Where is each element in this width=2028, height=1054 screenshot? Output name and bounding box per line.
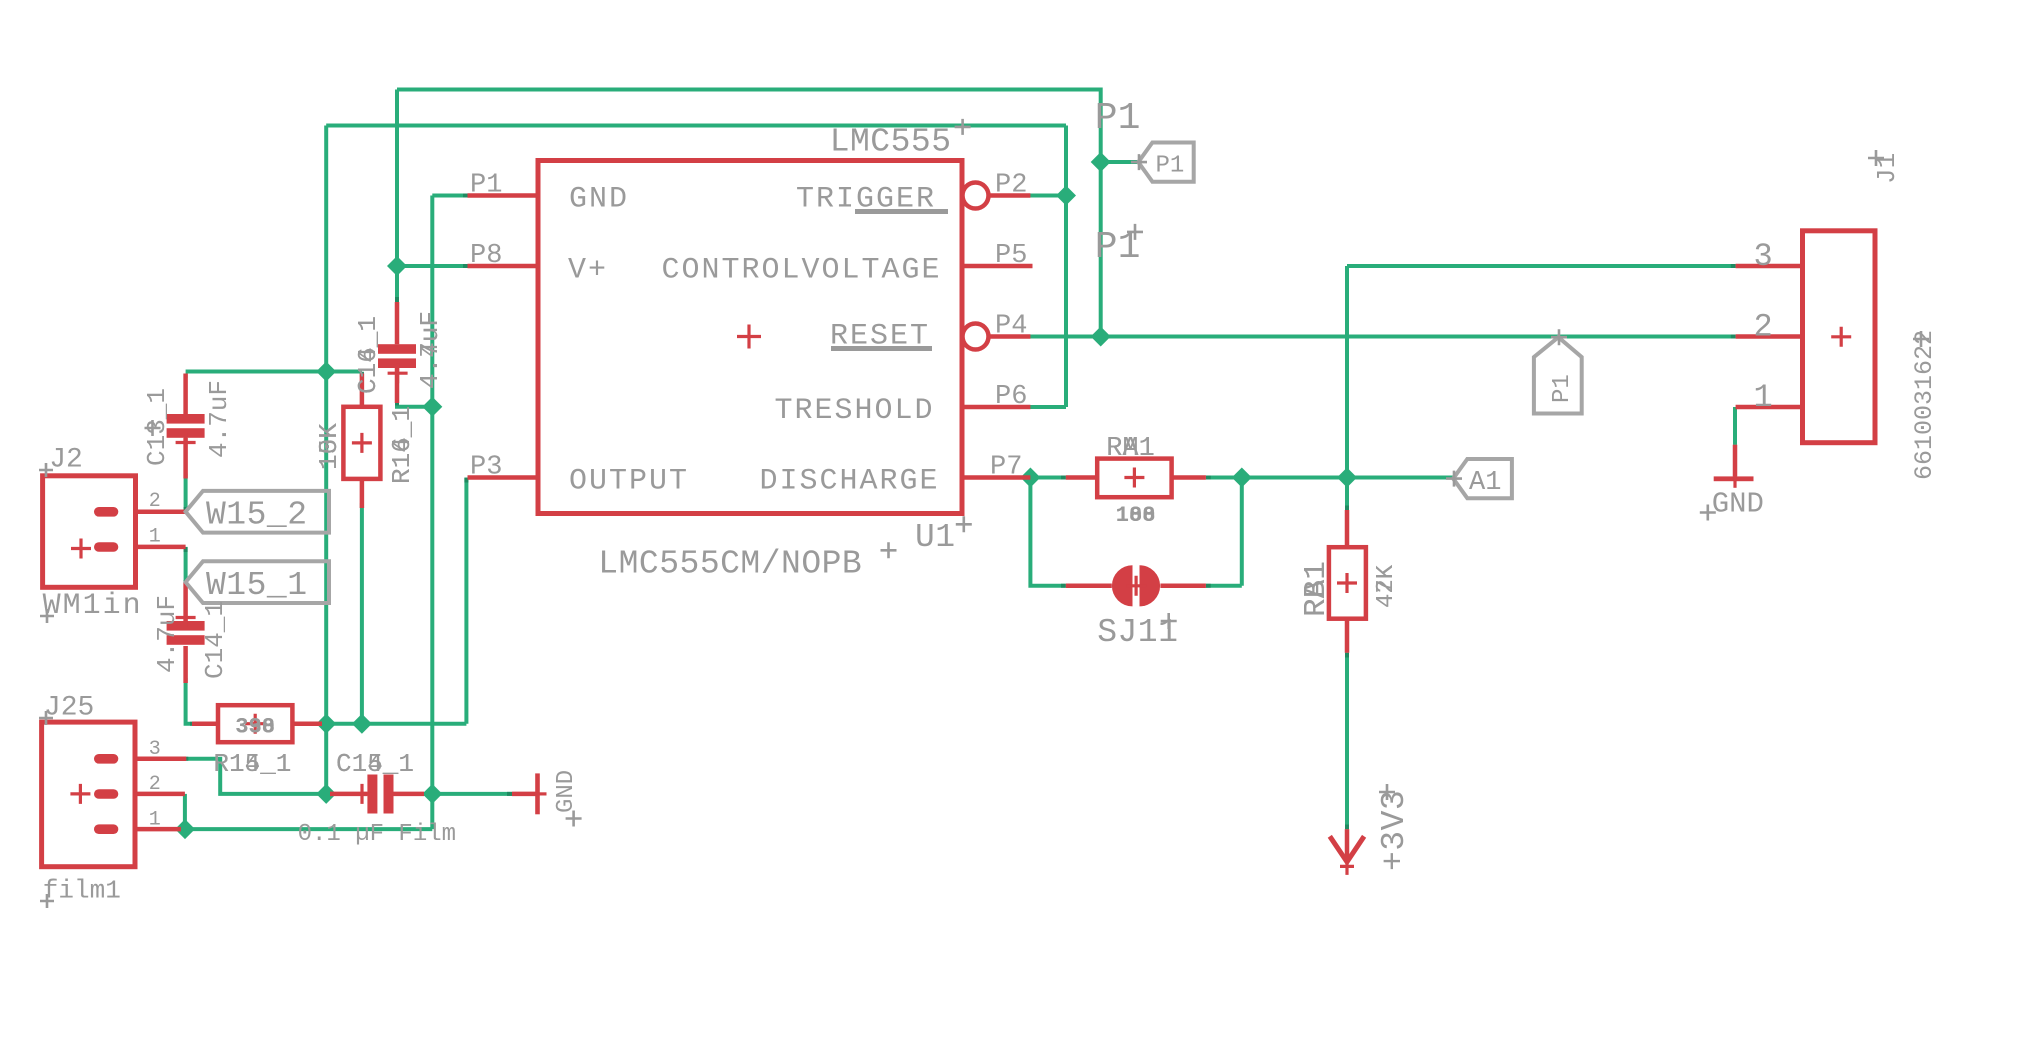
svg-text:P1: P1 xyxy=(1549,374,1576,403)
svg-text:4.7uF: 4.7uF xyxy=(152,595,182,673)
R15_1 name label xyxy=(213,749,291,779)
wire overlap nubs at red/green transitions xyxy=(186,196,1736,830)
flag A1 xyxy=(1446,459,1512,498)
wire RA1 right / SJ11 right / A1 stub xyxy=(1206,478,1453,586)
C16_1 value label 4.7uF xyxy=(415,311,445,389)
U1 pin P4 RESET (inverted) xyxy=(963,324,1031,350)
svg-text:3: 3 xyxy=(1754,238,1773,275)
net label P1 (reset net) xyxy=(1095,224,1143,269)
resistor R16_1 xyxy=(343,374,380,509)
svg-text:V+: V+ xyxy=(568,254,608,288)
wire J1 pin1 GND leg xyxy=(1733,407,1737,445)
junction C15 right xyxy=(422,784,442,804)
capacitor C15_1 xyxy=(330,775,424,814)
svg-text:GND: GND xyxy=(569,183,629,217)
svg-text:1: 1 xyxy=(149,808,161,831)
svg-text:15K: 15K xyxy=(314,423,344,470)
junction C16 bottom at GND vertical xyxy=(422,397,442,417)
junction J25 pin1 xyxy=(175,819,195,839)
J2 part label WM1in xyxy=(40,589,143,623)
GND label (near J1) xyxy=(1700,487,1764,520)
J1 name label xyxy=(1868,150,1902,184)
wire net J1 pin3 to RB1 xyxy=(1347,266,1736,478)
wire C15 to GND stub xyxy=(432,792,512,796)
RA1 name label xyxy=(1106,434,1155,464)
svg-text:W15_1: W15_1 xyxy=(206,567,308,604)
svg-text:R14_1: R14_1 xyxy=(387,406,417,484)
U1 TRIGGER underline xyxy=(855,209,948,214)
capacitor C16_1 xyxy=(378,302,416,403)
svg-text:P2: P2 xyxy=(995,171,1027,201)
wire C13/R16-top row xyxy=(186,370,362,374)
svg-text:1: 1 xyxy=(1754,379,1773,416)
wire RB1 bottom to +3V3 xyxy=(1345,653,1349,830)
wire long vertical of net B xyxy=(324,126,328,794)
C15_1 name label xyxy=(336,749,414,779)
svg-text:C14_1: C14_1 xyxy=(200,601,230,679)
resistor R15_1 xyxy=(192,705,322,742)
ground symbol GND (near C15) xyxy=(512,773,547,814)
U1 pin P8 V+ xyxy=(468,264,539,269)
svg-text:A1: A1 xyxy=(1469,468,1501,498)
GND label (near C15) xyxy=(553,770,582,827)
RB1 value label 47K xyxy=(1373,564,1400,608)
wire P8 stub xyxy=(397,264,468,268)
wire P7 to RA1 and SJ11 left xyxy=(1030,478,1065,586)
ground symbol GND (near J1) xyxy=(1714,445,1754,488)
J2 name label xyxy=(39,445,83,478)
svg-text:P1: P1 xyxy=(1095,97,1141,140)
junction C15 left xyxy=(316,784,336,804)
wire C14 bottom to R15 left xyxy=(186,683,192,724)
U1 value label LMC555 xyxy=(830,119,971,161)
flag W15_1 xyxy=(186,561,329,604)
svg-text:P4: P4 xyxy=(995,312,1027,342)
U1 pin P5 CONTROLVOLTAGE xyxy=(962,264,1033,269)
wire C16 bottom stub xyxy=(397,403,432,407)
svg-text:GND: GND xyxy=(1712,487,1764,520)
svg-text:RA1: RA1 xyxy=(1299,561,1334,617)
C16_1 name label xyxy=(353,316,383,394)
capacitor C13_1 xyxy=(167,374,205,479)
junction R16 bottom xyxy=(352,714,372,734)
wire stub to P1 flag xyxy=(1101,160,1138,164)
resistor RA1 xyxy=(1066,459,1206,498)
svg-text:6610031622: 6610031622 xyxy=(1910,330,1939,480)
svg-text:2: 2 xyxy=(149,490,161,513)
U1 RESET underline xyxy=(831,346,932,351)
svg-text:P6: P6 xyxy=(995,382,1027,412)
wire net TRIGGER/TRESHOLD (wire B) xyxy=(326,126,1066,408)
svg-text:P1: P1 xyxy=(1156,153,1185,180)
U1 name label U1 xyxy=(915,516,972,556)
wire net V+ vertical to C16 and P8 xyxy=(395,90,399,303)
RA1 value label 100 xyxy=(1116,503,1156,528)
flag P1 (down-pointing) xyxy=(1534,329,1582,413)
svg-text:U1: U1 xyxy=(915,519,956,556)
connector J25 xyxy=(42,722,187,867)
U1 part label LMC555CM/NOPB xyxy=(598,542,896,582)
svg-text:WM1in: WM1in xyxy=(43,589,143,623)
connector J2 xyxy=(43,476,186,588)
+3V3 label xyxy=(1376,784,1413,871)
flag W15_2 xyxy=(186,491,329,534)
svg-text:C14_1: C14_1 xyxy=(353,316,383,394)
svg-text:188: 188 xyxy=(1116,503,1156,528)
R16_1 value label 10K/15K xyxy=(314,423,344,470)
svg-text:2: 2 xyxy=(149,773,161,796)
junction at P2 xyxy=(1056,186,1076,206)
svg-text:LMC555: LMC555 xyxy=(830,124,952,161)
svg-text:398: 398 xyxy=(235,714,275,739)
svg-text:C14_1: C14_1 xyxy=(336,749,414,779)
svg-text:film1: film1 xyxy=(43,876,121,906)
U1 pin P7 DISCHARGE xyxy=(962,475,1030,480)
junction RA1 right xyxy=(1232,468,1252,488)
U1 pin P2 TRIGGER (inverted) xyxy=(963,183,1031,209)
svg-text:LMC555CM/NOPB: LMC555CM/NOPB xyxy=(598,546,862,583)
junction wire B x C13 row xyxy=(316,362,336,382)
wire P2 stub xyxy=(1030,194,1066,198)
SJ11 name label xyxy=(1097,613,1178,651)
svg-text:TRESHOLD: TRESHOLD xyxy=(775,394,935,428)
svg-text:4.7uF: 4.7uF xyxy=(204,380,234,458)
wire J2 pin1 to W15_1 and C14 xyxy=(184,547,188,582)
supply symbol +3V3 xyxy=(1330,829,1364,875)
wire net OUTPUT P3 / R15 / R16-bottom / J25 pin3 xyxy=(186,478,466,794)
svg-text:OUTPUT: OUTPUT xyxy=(569,465,689,499)
svg-text:0.1 µF Film: 0.1 µF Film xyxy=(298,821,456,848)
U1 pin P1 GND xyxy=(468,193,539,198)
IC U1 LMC555 body xyxy=(538,161,962,514)
svg-text:W15_2: W15_2 xyxy=(206,497,308,534)
J25 name label xyxy=(39,693,94,726)
svg-text:P1: P1 xyxy=(470,171,502,201)
svg-text:GND: GND xyxy=(553,770,580,813)
wire net GND vertical (IC pin P1 to C15/J25) xyxy=(185,196,468,830)
wire J2 pin2 to C13 xyxy=(184,479,188,512)
flag P1 (left-pointing) xyxy=(1131,143,1194,182)
svg-text:2: 2 xyxy=(1754,309,1773,346)
svg-text:3: 3 xyxy=(149,738,161,761)
svg-text:4.4uF: 4.4uF xyxy=(415,311,445,389)
R15_1 value label 330 xyxy=(235,714,275,739)
svg-text:CONTROLVOLTAGE: CONTROLVOLTAGE xyxy=(662,254,942,288)
svg-text:R14_1: R14_1 xyxy=(213,749,291,779)
wire net RESET P4 to J1 pin2 xyxy=(1030,335,1735,339)
junction RB1 top xyxy=(1337,468,1357,488)
svg-text:+3V3: +3V3 xyxy=(1376,790,1413,871)
svg-text:J2: J2 xyxy=(49,445,83,476)
svg-text:SJ11: SJ11 xyxy=(1097,614,1178,651)
U1 pin P6 TRESHOLD xyxy=(962,405,1030,410)
svg-text:DISCHARGE: DISCHARGE xyxy=(760,465,940,499)
RB1 name label xyxy=(1299,561,1334,617)
svg-text:P5: P5 xyxy=(995,241,1027,271)
resistor RB1 xyxy=(1329,510,1366,653)
svg-text:RM1: RM1 xyxy=(1106,434,1155,464)
junction at P1 flag xyxy=(1091,152,1111,172)
svg-text:P8: P8 xyxy=(470,241,502,271)
capacitor C14_1 xyxy=(167,582,205,683)
solder jumper SJ11 xyxy=(1066,565,1206,606)
J1 part label 6610031622 xyxy=(1910,330,1939,480)
wire RB1 top stub xyxy=(1345,478,1349,511)
junction at P7 xyxy=(1020,468,1040,488)
svg-text:1: 1 xyxy=(149,525,161,548)
svg-text:42K: 42K xyxy=(1373,564,1400,608)
junction at P8 xyxy=(387,256,407,276)
wire net V+ top loop (wire A) xyxy=(397,90,1101,337)
connector J1 xyxy=(1736,231,1875,443)
junction R15 right at long vertical xyxy=(316,714,336,734)
junction at RESET row xyxy=(1091,327,1111,347)
svg-text:P3: P3 xyxy=(470,453,502,483)
svg-text:P7: P7 xyxy=(990,453,1022,483)
C13_1 name label xyxy=(142,388,172,466)
J25 part label film1 xyxy=(40,876,121,909)
U1 pin P3 OUTPUT xyxy=(468,475,539,480)
R16_1 name label xyxy=(387,406,417,484)
wire J25 pin2 leg xyxy=(183,794,187,829)
